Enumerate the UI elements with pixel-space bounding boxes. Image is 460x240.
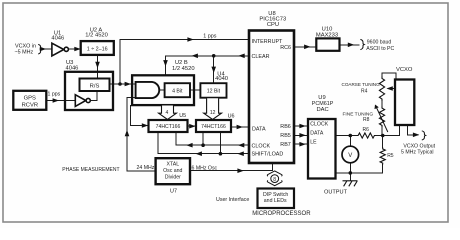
svg-text:and LEDs: and LEDs bbox=[264, 198, 287, 204]
wire R/S output to U2B AND gate bbox=[110, 83, 136, 85]
wire CLEAR from CPU bbox=[166, 56, 248, 74]
R/S flip-flop bbox=[80, 79, 110, 92]
svg-text:R5: R5 bbox=[387, 153, 394, 159]
wire R6 to summing node bbox=[376, 135, 383, 137]
svg-text:74HCT166: 74HCT166 bbox=[156, 124, 181, 130]
resistor R5 bbox=[380, 148, 385, 165]
squiggle VCXO output bbox=[422, 131, 426, 140]
svg-text:DATA: DATA bbox=[310, 131, 324, 137]
svg-text:8: 8 bbox=[273, 177, 276, 183]
wire 1 pps to CPU interrupt bbox=[120, 40, 248, 85]
svg-text:OUTPUT: OUTPUT bbox=[324, 190, 348, 196]
wire U6 data out to CPU bbox=[231, 126, 248, 128]
wire 24 MHz to AND gate input bbox=[127, 98, 156, 171]
wire CPU RC6 to MAX233 bbox=[294, 46, 316, 48]
svg-text:V: V bbox=[348, 153, 352, 159]
AND gate U2B bbox=[136, 82, 160, 98]
svg-text:6 MHz Osc: 6 MHz Osc bbox=[192, 165, 218, 171]
svg-text:1 ÷ 2–16: 1 ÷ 2–16 bbox=[87, 47, 108, 53]
divider U2A bbox=[81, 41, 114, 55]
svg-text:CLOCK: CLOCK bbox=[252, 143, 271, 149]
svg-text:24 MHz: 24 MHz bbox=[137, 165, 155, 171]
svg-text:12: 12 bbox=[210, 110, 216, 116]
resistor R4 coarse tuning pot bbox=[379, 76, 384, 101]
arrow U2A clock down into R/S bbox=[95, 62, 100, 68]
svg-text:MICROPROCESSOR: MICROPROCESSOR bbox=[252, 211, 311, 217]
node shift line U6 bbox=[219, 152, 223, 156]
arrow shift left inner bbox=[196, 151, 202, 156]
svg-text:74HCT166: 74HCT166 bbox=[201, 124, 226, 130]
svg-text:PHASE MEASUREMENT: PHASE MEASUREMENT bbox=[62, 167, 119, 173]
svg-text:4: 4 bbox=[166, 110, 169, 116]
wire U2A to R/S (divided clock) bbox=[97, 55, 99, 79]
resistor R8 fine tuning bbox=[379, 107, 384, 128]
wire U2B to U5 serial input bbox=[131, 106, 148, 126]
shift register U6 bbox=[196, 120, 231, 132]
wire RB5 to DAC data bbox=[294, 134, 308, 136]
svg-text:MAX233: MAX233 bbox=[316, 32, 338, 38]
svg-text:Divider: Divider bbox=[165, 174, 181, 180]
svg-text:DAC: DAC bbox=[316, 107, 328, 113]
arrow VCXO output bbox=[413, 133, 419, 138]
bus arrow 12 bits to U6 bbox=[204, 98, 222, 119]
wire R8 bottom to node bbox=[381, 127, 383, 136]
node summing point bbox=[381, 134, 385, 138]
wire RB6 to DAC clock bbox=[294, 125, 308, 127]
inverter in U3 bbox=[75, 95, 90, 107]
DIP switch and LEDs box bbox=[258, 189, 295, 209]
wire inverter output to R/S set bbox=[91, 91, 97, 101]
VCXO bbox=[395, 80, 414, 126]
wire R5 bottom to rail bbox=[382, 165, 384, 173]
svg-text:SHIFT/LOAD: SHIFT/LOAD bbox=[252, 152, 284, 158]
svg-text:RCVR: RCVR bbox=[22, 102, 38, 108]
svg-text:U6: U6 bbox=[228, 113, 235, 119]
svg-text:RB6: RB6 bbox=[280, 124, 291, 130]
svg-text:4046: 4046 bbox=[51, 35, 64, 41]
wire AND gate output to 4 Bit counter bbox=[160, 89, 164, 91]
svg-text:RB5: RB5 bbox=[280, 133, 291, 139]
MAX233 U10 bbox=[316, 38, 339, 50]
svg-text:XTAL: XTAL bbox=[167, 161, 180, 167]
wire ground stem bbox=[349, 173, 351, 181]
svg-text:R4: R4 bbox=[361, 89, 368, 95]
wire R4 top to VCXO top bbox=[382, 73, 396, 79]
svg-text:VCXO in: VCXO in bbox=[15, 43, 36, 49]
svg-text:R/S: R/S bbox=[90, 83, 100, 89]
arrow shift left outer bbox=[237, 151, 243, 156]
svg-text:U7: U7 bbox=[170, 189, 177, 195]
svg-text:R6: R6 bbox=[363, 127, 370, 133]
svg-text:RB7: RB7 bbox=[280, 142, 291, 148]
wire U6 shift stem bbox=[219, 132, 221, 154]
arrow CLEAR down into U2B bbox=[163, 60, 168, 66]
svg-text:4040: 4040 bbox=[215, 76, 228, 82]
svg-text:VCXO: VCXO bbox=[396, 67, 413, 73]
arrow 6 MHz to CPU bbox=[237, 168, 243, 173]
wire R4 to R8 bbox=[381, 101, 383, 107]
wire RB7 to DAC LE bbox=[294, 143, 308, 145]
arrow 1 pps into U3 bbox=[53, 98, 59, 103]
svg-text:CPU: CPU bbox=[267, 22, 279, 28]
arrow U5 to U6 bbox=[189, 124, 195, 129]
svg-text:RC6: RC6 bbox=[280, 45, 291, 51]
svg-text:U2 B: U2 B bbox=[175, 60, 188, 66]
4 bit counter box bbox=[165, 83, 190, 97]
wire 4 Bit to 12 Bit counter bbox=[190, 89, 200, 91]
arrow clock left inner bbox=[186, 143, 192, 148]
arrow RC6 to MAX233 bbox=[304, 45, 310, 50]
arrow CLEAR left outer bbox=[238, 54, 244, 59]
wire R4 wiper from VCXO bbox=[388, 88, 395, 90]
arrow data to CPU bbox=[237, 125, 243, 130]
node CLEAR to U4 bbox=[212, 54, 216, 58]
svg-text:CLOCK: CLOCK bbox=[310, 121, 328, 127]
DAC U9 PCM61P bbox=[308, 119, 336, 179]
arrow into U1 bbox=[40, 47, 46, 52]
phase detector U3 bbox=[65, 72, 113, 110]
svg-text:9600 baud: 9600 baud bbox=[367, 39, 392, 45]
wire shift clock line bbox=[176, 144, 248, 146]
bus symbol 8 bits bbox=[267, 171, 282, 186]
wire VCXO input bbox=[40, 48, 52, 50]
arrow RB5 to data bbox=[299, 133, 305, 138]
squiggle serial to PC bbox=[360, 39, 364, 49]
wire voltmeter bottom to ground rail bbox=[349, 163, 351, 173]
arrow clock left outer bbox=[238, 143, 244, 148]
svg-text:U5: U5 bbox=[179, 113, 186, 119]
svg-text:CLEAR: CLEAR bbox=[252, 54, 270, 60]
wire 6 MHz osc to CPU bbox=[190, 164, 273, 171]
svg-text:4046: 4046 bbox=[66, 65, 79, 71]
wire DAC output to R6 bbox=[336, 135, 358, 137]
node ground rail bbox=[349, 171, 353, 175]
svg-text:VCXO Output: VCXO Output bbox=[403, 143, 435, 149]
svg-text:GPS: GPS bbox=[24, 95, 36, 101]
CPU U8 PIC16C73 bbox=[249, 31, 294, 164]
bus arrow 4 bits to U5 bbox=[159, 106, 177, 120]
svg-text:5 MHz Typical: 5 MHz Typical bbox=[401, 150, 433, 156]
arrow CLEAR down into U4 bbox=[211, 67, 216, 73]
arrow RB6 to clock bbox=[299, 124, 305, 129]
ground bbox=[343, 181, 358, 187]
node R/S output junction bbox=[118, 82, 122, 86]
arrow R/S output into U2B bbox=[125, 82, 131, 87]
wire node to VCXO bottom lead bbox=[383, 125, 400, 136]
wire U5 to U6 serial bbox=[188, 125, 196, 127]
svg-text:ASCII to PC: ASCII to PC bbox=[366, 46, 394, 52]
svg-text:4 Bit: 4 Bit bbox=[172, 88, 183, 94]
counter U4 12 bit box bbox=[200, 83, 226, 98]
node DAC output bbox=[349, 134, 353, 138]
wire U5 shift stem bbox=[157, 132, 159, 154]
wire voltmeter top bbox=[349, 136, 351, 147]
arrow MAX233 to PC bbox=[348, 43, 354, 48]
counter U2B bbox=[132, 75, 194, 105]
R8 trimmer arrow bbox=[375, 105, 388, 133]
GPS receiver bbox=[13, 91, 46, 110]
arrow serial into U5 bbox=[142, 123, 148, 128]
resistor R6 bbox=[357, 133, 376, 138]
svg-text:R8: R8 bbox=[363, 117, 370, 123]
svg-text:User Interface: User Interface bbox=[216, 197, 249, 203]
svg-text:Osc and: Osc and bbox=[163, 168, 182, 174]
shift register U5 bbox=[149, 120, 188, 132]
squiggle VCXO in bbox=[38, 44, 42, 54]
inverter U1 bbox=[52, 43, 69, 56]
wire shift/load line bbox=[158, 153, 248, 155]
wire GPS 1 pps to U3 bbox=[46, 100, 75, 102]
wire CLEAR branch to U4 bbox=[213, 56, 215, 82]
svg-text:12 Bit: 12 Bit bbox=[207, 89, 221, 95]
svg-text:DATA: DATA bbox=[252, 126, 266, 132]
node clock line U6 bbox=[201, 143, 205, 147]
svg-text:LE: LE bbox=[310, 140, 317, 146]
arrow CLEAR left inner bbox=[192, 54, 198, 59]
svg-text:1/2 4520: 1/2 4520 bbox=[85, 33, 108, 39]
svg-text:1 pps: 1 pps bbox=[48, 92, 61, 98]
arrow RB7 to LE bbox=[299, 142, 305, 147]
XTAL oscillator U7 bbox=[156, 158, 190, 184]
svg-text:INTERRUPT: INTERRUPT bbox=[252, 39, 284, 45]
wire MAX233 output bbox=[340, 44, 360, 46]
svg-text:COARSE TUNING: COARSE TUNING bbox=[342, 82, 381, 87]
wire ground rail bbox=[336, 172, 383, 174]
svg-text:1 pps: 1 pps bbox=[203, 33, 216, 39]
arrow into U2A bbox=[74, 47, 80, 52]
arrow R4 wiper bbox=[386, 86, 392, 91]
svg-text:~5 MHz: ~5 MHz bbox=[15, 49, 34, 55]
wire node down to R5 bbox=[382, 136, 384, 148]
arrow 1 pps to CPU bbox=[187, 37, 193, 42]
voltmeter V bbox=[342, 146, 359, 163]
arrow 24 MHz up bbox=[125, 130, 130, 136]
wire U5 clock stem bbox=[175, 132, 177, 145]
wire U1 output to U2A bbox=[68, 48, 80, 50]
wire U6 clock stem bbox=[202, 132, 204, 145]
svg-text:1/2 4520: 1/2 4520 bbox=[172, 66, 195, 72]
wire VCXO output lead bbox=[408, 125, 418, 135]
